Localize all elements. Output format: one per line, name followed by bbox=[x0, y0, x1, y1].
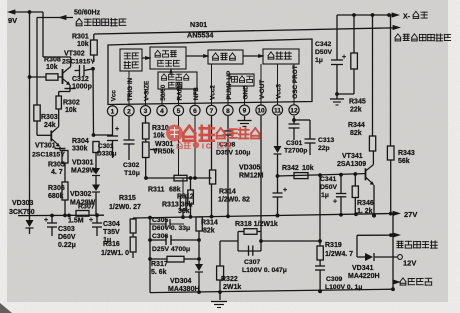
svg-text:RM12M: RM12M bbox=[239, 173, 264, 180]
label pin name Vcc3 bbox=[275, 84, 282, 99]
resistor R315 bbox=[130, 218, 136, 237]
label pin name GND bbox=[242, 85, 249, 100]
label R314 0.82 bbox=[218, 189, 250, 204]
wire NFB row bbox=[146, 177, 212, 179]
svg-text:10k: 10k bbox=[302, 165, 314, 172]
wire IC internal stub pin 8 bbox=[227, 86, 229, 103]
label pin name TRIG IN bbox=[127, 77, 134, 101]
junction xray rail a bbox=[352, 13, 356, 17]
wire IC internal stub pin 10 bbox=[260, 64, 262, 102]
junction bottom d bbox=[391, 287, 395, 291]
svg-text:R322: R322 bbox=[221, 276, 238, 283]
block field drive 场激励 bbox=[208, 50, 243, 64]
svg-text:C312: C312 bbox=[72, 76, 89, 83]
arrow sawtooth to field drive bbox=[186, 54, 210, 58]
svg-text:GND: GND bbox=[242, 85, 249, 100]
wire IC internal stub pin 5 bbox=[178, 89, 180, 103]
wire bias node to C301 bbox=[94, 134, 113, 136]
svg-text:R344: R344 bbox=[348, 122, 365, 129]
label pin name RAMP bbox=[176, 81, 183, 101]
label VD341 bbox=[348, 265, 380, 280]
junction R308 left bbox=[28, 75, 32, 79]
label pin name PUMP UP bbox=[226, 70, 233, 100]
label pin name V-SIZE bbox=[143, 80, 150, 101]
svg-text:3CK750: 3CK750 bbox=[9, 209, 35, 216]
svg-text:+: + bbox=[333, 199, 337, 206]
capacitor C341 bbox=[333, 175, 346, 217]
label pin name Vcc2 bbox=[209, 85, 216, 100]
wire 27V rail bbox=[133, 214, 392, 219]
label C305 bbox=[152, 217, 190, 232]
svg-text:2SA1309: 2SA1309 bbox=[337, 161, 366, 168]
svg-text:V-SIZE: V-SIZE bbox=[143, 80, 150, 101]
svg-text:R319: R319 bbox=[325, 242, 342, 249]
label pin name Vcc bbox=[110, 90, 117, 102]
label pin name 50/60 bbox=[160, 84, 167, 100]
svg-text:1: 1 bbox=[111, 108, 115, 115]
label R302 bbox=[63, 100, 80, 115]
svg-text:10k: 10k bbox=[77, 41, 89, 48]
svg-text:7: 7 bbox=[210, 108, 214, 115]
svg-text:T10μ: T10μ bbox=[124, 170, 140, 177]
junction on 9V wire bbox=[28, 10, 32, 14]
label R346 bbox=[357, 200, 374, 215]
label pin name OSC PROT bbox=[292, 65, 299, 98]
label N301 bbox=[190, 20, 207, 29]
label VD302 bbox=[70, 191, 96, 207]
ground right of C342 bbox=[330, 94, 344, 105]
svg-text:R308: R308 bbox=[44, 57, 61, 64]
capacitor C313 bbox=[294, 120, 316, 155]
label R303 bbox=[41, 114, 58, 129]
resistor R345 bbox=[337, 15, 357, 94]
svg-text:D330μ: D330μ bbox=[97, 151, 117, 158]
capacitor C304 bbox=[89, 213, 102, 236]
pin 5 circle bbox=[173, 103, 183, 115]
svg-text:C307: C307 bbox=[244, 259, 260, 266]
svg-text:R310: R310 bbox=[152, 125, 169, 132]
arrow field drive to field output bbox=[243, 54, 265, 58]
resistor R319 bbox=[317, 246, 323, 266]
svg-text:X-: X- bbox=[403, 14, 411, 21]
wire IC internal stub pin 4 bbox=[161, 89, 163, 104]
svg-text:12: 12 bbox=[290, 107, 298, 114]
pin 12 circle bbox=[289, 102, 299, 115]
capacitor C312 bbox=[75, 65, 94, 77]
label pin name V-OUT bbox=[259, 80, 266, 100]
svg-text:VT301: VT301 bbox=[35, 143, 56, 150]
label R312 bbox=[177, 194, 194, 201]
svg-text:VT302: VT302 bbox=[64, 51, 85, 58]
svg-text:1.5M: 1.5M bbox=[68, 218, 84, 225]
label R313 bbox=[162, 202, 192, 216]
resistor R313 bbox=[180, 178, 186, 219]
watermark 维库 large bbox=[183, 126, 213, 141]
label R310 bbox=[152, 125, 169, 140]
label R342 bbox=[282, 165, 314, 172]
svg-text:I C: I C bbox=[202, 144, 211, 151]
svg-text:R315: R315 bbox=[119, 195, 136, 202]
wire left bottom row bbox=[18, 214, 104, 216]
label VD304 bbox=[168, 278, 200, 293]
junction bottom c bbox=[318, 289, 322, 293]
capacitor C303 bbox=[44, 214, 57, 236]
label pin name NFB bbox=[193, 87, 200, 101]
transistor VT301 bbox=[37, 127, 66, 151]
svg-text:C304: C304 bbox=[103, 221, 120, 228]
svg-text:R302: R302 bbox=[63, 100, 80, 107]
watermark small row bbox=[177, 142, 231, 151]
svg-text:Vcc: Vcc bbox=[110, 90, 117, 102]
svg-text:22p: 22p bbox=[318, 145, 330, 152]
wire output column bbox=[148, 216, 152, 293]
diode VD302 bbox=[92, 185, 100, 216]
label C309 bbox=[325, 276, 362, 291]
wire main top rail bbox=[94, 28, 396, 34]
junction rail r342 col bbox=[226, 214, 230, 218]
label R343 bbox=[398, 150, 415, 165]
label C304 bbox=[103, 221, 120, 244]
svg-text:VR50k: VR50k bbox=[153, 149, 175, 156]
label R316 bbox=[101, 241, 129, 257]
svg-text:R306: R306 bbox=[48, 185, 65, 192]
resistor R342 bbox=[294, 173, 308, 179]
resistor R302 bbox=[56, 96, 61, 127]
junction R306 bottom bbox=[63, 214, 67, 218]
junction bias node bbox=[92, 133, 96, 137]
svg-text:8: 8 bbox=[226, 108, 230, 115]
label C341 bbox=[320, 176, 337, 199]
capacitor C306 bbox=[148, 235, 201, 245]
svg-text:R311: R311 bbox=[148, 187, 164, 194]
junction W301 bottom bbox=[144, 176, 148, 180]
label 50/60Hz bbox=[74, 10, 101, 17]
wire 9V vertical left rail bbox=[29, 12, 31, 216]
svg-text:R343: R343 bbox=[398, 150, 415, 157]
block field output 场输出 bbox=[263, 49, 299, 64]
junction rail vd305 col bbox=[276, 214, 280, 218]
svg-text:Vcc3: Vcc3 bbox=[275, 84, 282, 99]
junction C342 bottom bbox=[335, 92, 339, 96]
label C306 bbox=[152, 233, 190, 253]
svg-text:R314: R314 bbox=[201, 220, 218, 227]
svg-text:C301: C301 bbox=[98, 143, 114, 150]
label C301 left bbox=[97, 143, 117, 158]
transistor VT302 bbox=[43, 57, 76, 96]
svg-text:680k: 680k bbox=[48, 193, 64, 200]
resistor R344 bbox=[369, 15, 375, 151]
label VT341 bbox=[337, 153, 366, 168]
wire bottom rail bbox=[150, 289, 393, 292]
capacitor C301 (pin1) bbox=[107, 116, 119, 158]
watermark logo circle bbox=[166, 125, 183, 142]
svg-text:50/60Hz: 50/60Hz bbox=[74, 10, 101, 17]
svg-text:2W1k: 2W1k bbox=[223, 284, 241, 291]
svg-text:MA4220H: MA4220H bbox=[348, 273, 380, 280]
svg-text:R304: R304 bbox=[72, 138, 89, 145]
diode VD303 bbox=[26, 216, 34, 235]
wire deflection row bbox=[357, 233, 396, 237]
svg-text:NFB: NFB bbox=[193, 87, 200, 101]
capacitor pump electrolytic bbox=[273, 154, 288, 217]
svg-text:1μ: 1μ bbox=[321, 192, 329, 199]
capacitor C302 (pin2) bbox=[124, 116, 135, 160]
wire field feedback vertical bbox=[391, 213, 395, 289]
resistor R310 bbox=[143, 116, 150, 142]
svg-text:D35V 100μ: D35V 100μ bbox=[216, 150, 250, 157]
diode VD341 bbox=[357, 253, 397, 261]
label VD303 bbox=[9, 200, 35, 216]
block trigger input 触发输入 bbox=[120, 49, 142, 71]
node 27V arrow bbox=[392, 210, 417, 219]
wire loop right bbox=[259, 239, 322, 243]
svg-text:C305: C305 bbox=[152, 217, 168, 224]
svg-text:R317: R317 bbox=[151, 261, 168, 268]
svg-text:82k: 82k bbox=[203, 228, 215, 235]
svg-text:10: 10 bbox=[257, 108, 265, 115]
wire pin6 down bbox=[193, 116, 197, 180]
svg-text:12V: 12V bbox=[403, 259, 416, 268]
wire pin5 down bbox=[178, 116, 180, 175]
diode VD304 bbox=[195, 240, 203, 294]
wire R319 column bbox=[318, 173, 322, 246]
svg-text:RAMP: RAMP bbox=[176, 81, 183, 101]
svg-text:+: + bbox=[89, 217, 93, 224]
resistor R307 bbox=[76, 211, 89, 217]
junction rail r346 bbox=[354, 212, 358, 216]
svg-text:+: + bbox=[342, 54, 346, 61]
svg-text:2: 2 bbox=[127, 108, 131, 115]
potentiometer W301 bbox=[143, 142, 158, 178]
svg-text:VD304: VD304 bbox=[170, 278, 192, 285]
svg-text:TRIG IN: TRIG IN bbox=[127, 77, 134, 101]
svg-text:Vcc2: Vcc2 bbox=[209, 85, 216, 100]
svg-text:6: 6 bbox=[193, 108, 197, 115]
label C302 bbox=[123, 162, 140, 177]
label VT302 bbox=[62, 51, 95, 66]
svg-text:D50V: D50V bbox=[320, 184, 337, 191]
svg-text:1μ: 1μ bbox=[315, 57, 323, 64]
svg-text:24k: 24k bbox=[44, 122, 56, 129]
label R345 bbox=[349, 99, 366, 114]
node main deflection coil arrow bbox=[393, 232, 438, 248]
svg-text:C341: C341 bbox=[320, 176, 336, 183]
resistor R305 bbox=[62, 151, 68, 183]
svg-text:R316: R316 bbox=[103, 241, 120, 248]
svg-text:5. 6k: 5. 6k bbox=[151, 269, 167, 276]
junction xray rail b bbox=[371, 13, 375, 17]
resistor R314 (1/2W0.82) bbox=[210, 116, 216, 219]
resistor R346 bbox=[352, 172, 358, 214]
block pump supply 泵电源 bbox=[229, 74, 254, 86]
svg-text:C342: C342 bbox=[315, 41, 331, 48]
label C342 bbox=[315, 41, 332, 64]
capacitor C305 bbox=[150, 219, 184, 229]
svg-text:1/2W0. 82: 1/2W0. 82 bbox=[218, 197, 250, 204]
pin 11 circle bbox=[272, 102, 282, 115]
svg-text:R346: R346 bbox=[357, 200, 374, 207]
label C308 bbox=[216, 142, 250, 157]
svg-text:VD303: VD303 bbox=[12, 200, 34, 207]
wire IC internal stub pin 3 bbox=[145, 89, 147, 104]
label R306 bbox=[48, 185, 65, 200]
capacitor C309 bbox=[315, 266, 325, 293]
svg-text:9: 9 bbox=[243, 108, 247, 115]
svg-text:11: 11 bbox=[274, 108, 281, 115]
node field drive pulse input arrow bbox=[393, 25, 451, 41]
resistor R308 bbox=[30, 74, 63, 80]
svg-text:C301: C301 bbox=[286, 140, 302, 147]
svg-text:2SC1815Y: 2SC1815Y bbox=[62, 59, 95, 66]
resistor R343 bbox=[387, 15, 394, 216]
svg-text:R345: R345 bbox=[349, 99, 366, 106]
svg-text:1/2W1. 0: 1/2W1. 0 bbox=[101, 250, 129, 257]
junction xray rail c bbox=[387, 13, 391, 17]
svg-text:10k: 10k bbox=[46, 64, 58, 71]
resistor R317 bbox=[148, 256, 201, 262]
label R319 bbox=[325, 242, 353, 258]
svg-text:C306: C306 bbox=[152, 233, 168, 240]
pin 1 circle bbox=[107, 104, 117, 116]
resistor R318 bbox=[238, 229, 261, 235]
svg-text:D60V 0. 33μ: D60V 0. 33μ bbox=[152, 225, 190, 232]
svg-text:+: + bbox=[283, 187, 287, 194]
svg-text:1/2W0. 27: 1/2W0. 27 bbox=[109, 204, 141, 211]
resistor R314 82k bbox=[196, 217, 202, 240]
svg-text:330k: 330k bbox=[72, 146, 88, 153]
svg-text:L100V 0. 047μ: L100V 0. 047μ bbox=[242, 267, 287, 274]
diode VD305 bbox=[274, 116, 282, 193]
ground pin 9 bbox=[238, 116, 252, 127]
arrow control switch to sawtooth bbox=[169, 68, 172, 74]
junction R342 right bbox=[339, 173, 343, 177]
svg-text:82k: 82k bbox=[350, 130, 362, 137]
wire X-ray rail bbox=[337, 14, 392, 16]
svg-text:36k: 36k bbox=[178, 208, 190, 215]
wire R342 row bbox=[276, 174, 366, 178]
svg-text:C303: C303 bbox=[58, 226, 75, 233]
label R317 bbox=[151, 261, 168, 276]
svg-text:9V: 9V bbox=[8, 16, 17, 25]
svg-text:T35V: T35V bbox=[103, 229, 120, 236]
junction rail vt341 emitter bbox=[372, 214, 376, 218]
resistor R312 bbox=[188, 176, 194, 219]
label R307 bbox=[68, 204, 95, 225]
watermark 电子市场 medium bbox=[217, 128, 260, 138]
label C307 bbox=[242, 259, 287, 274]
node X-ray output arrow bbox=[392, 11, 428, 20]
label C313 bbox=[318, 137, 334, 152]
svg-text:10k: 10k bbox=[153, 133, 165, 140]
svg-text:R342: R342 bbox=[282, 165, 299, 172]
resistor R306 bbox=[62, 182, 68, 215]
svg-text:C313: C313 bbox=[318, 137, 334, 144]
wire VD341 branch bbox=[356, 235, 358, 257]
node 50/60Hz input arrow bbox=[37, 15, 73, 20]
svg-text:T2700p: T2700p bbox=[284, 148, 307, 155]
resistor R303 bbox=[34, 105, 40, 135]
pin 7 circle bbox=[206, 103, 216, 116]
label R301 bbox=[72, 34, 89, 49]
svg-text:+: + bbox=[44, 217, 48, 224]
svg-text:1/2W4. 7: 1/2W4. 7 bbox=[325, 251, 353, 258]
svg-text:R303: R303 bbox=[41, 114, 58, 121]
capacitor C301 T2700p (pin12) bbox=[289, 116, 300, 140]
wire IC internal stub pin 7 bbox=[211, 64, 213, 103]
ground center bottom bbox=[211, 302, 227, 308]
arrow trigger to sawtooth bbox=[142, 56, 152, 60]
label R318 bbox=[235, 221, 278, 228]
capacitor C308 (pin8) bbox=[223, 116, 234, 216]
wire pin10 V-OUT down bbox=[260, 116, 262, 232]
svg-text:VD301: VD301 bbox=[72, 160, 94, 167]
wire IC internal stub pin 6 bbox=[194, 90, 196, 104]
label R308 bbox=[44, 57, 61, 72]
wire IC internal stub pin 2 bbox=[128, 71, 130, 104]
block sawtooth generator 锯齿波发生器 bbox=[150, 47, 186, 69]
label R322 bbox=[221, 276, 241, 291]
svg-text:1000p: 1000p bbox=[72, 84, 92, 91]
pin 4 circle bbox=[157, 104, 167, 116]
diode VD301 bbox=[92, 168, 100, 185]
svg-text:PUMP UP: PUMP UP bbox=[226, 70, 233, 100]
svg-text:N301: N301 bbox=[190, 20, 207, 29]
svg-text:R305: R305 bbox=[48, 162, 65, 169]
svg-text:R318 1/2W1k: R318 1/2W1k bbox=[235, 221, 278, 228]
svg-text:MA29W: MA29W bbox=[71, 168, 97, 175]
wire loop left to R322 bbox=[220, 240, 238, 242]
svg-text:C302: C302 bbox=[123, 162, 139, 169]
svg-text:W301: W301 bbox=[155, 141, 173, 148]
resistor R311 bbox=[174, 175, 187, 181]
pin 9 circle bbox=[239, 102, 249, 115]
svg-text:56k: 56k bbox=[398, 158, 410, 165]
node field negative feedback arrow bbox=[393, 278, 432, 285]
junction R322 bottom rail bbox=[218, 290, 222, 294]
svg-text:D25V 4700μ: D25V 4700μ bbox=[152, 246, 190, 253]
svg-text:2SC1815Y: 2SC1815Y bbox=[32, 152, 65, 159]
wire R318 loop bbox=[238, 232, 261, 252]
svg-text:27V: 27V bbox=[404, 210, 417, 219]
op-amp IC N301 AN5534 outline bbox=[108, 39, 312, 105]
resistor R301 bbox=[91, 34, 98, 62]
pin 6 circle bbox=[190, 103, 200, 115]
svg-text:R307: R307 bbox=[78, 204, 95, 211]
label R315 bbox=[109, 195, 141, 211]
svg-text:VD305: VD305 bbox=[239, 165, 261, 172]
wire R301 bias column bbox=[92, 62, 95, 135]
svg-text:VT341: VT341 bbox=[342, 153, 363, 160]
svg-text:22k: 22k bbox=[350, 107, 362, 114]
junction C312 to R301 column bbox=[91, 67, 95, 71]
svg-text:D60V: D60V bbox=[58, 234, 76, 241]
pin 3 circle bbox=[140, 104, 150, 116]
scan artifact corner blob bbox=[0, 303, 12, 313]
pin 2 circle bbox=[124, 104, 134, 116]
svg-text:VD341: VD341 bbox=[352, 265, 374, 272]
svg-text:5: 5 bbox=[177, 108, 181, 115]
svg-text:68k: 68k bbox=[169, 187, 181, 194]
resistor R322 bbox=[217, 241, 224, 300]
wire IC internal stub pin 9 bbox=[244, 86, 246, 102]
label R314 82k bbox=[201, 220, 218, 235]
label C301 T2700p bbox=[284, 140, 307, 155]
wire IC internal stub pin 12 bbox=[293, 64, 295, 102]
label AN5534 bbox=[187, 31, 213, 40]
svg-text:V-OUT: V-OUT bbox=[259, 80, 266, 100]
label VD305 bbox=[239, 165, 264, 180]
label R344 bbox=[348, 122, 365, 137]
